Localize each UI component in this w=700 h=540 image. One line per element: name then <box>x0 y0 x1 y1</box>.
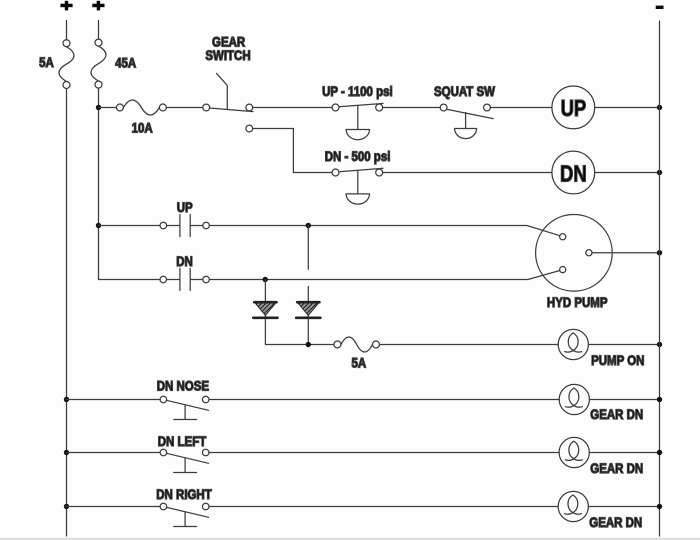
wire: pump-on row left <box>266 344 334 346</box>
relay contact K-UP <box>99 215 210 237</box>
indicator UP (circle) <box>552 86 595 129</box>
node: UP row / diode D2 branch <box>306 223 311 228</box>
node: left bus / DN NOSE row <box>64 397 69 402</box>
battery plus terminal 2 <box>92 1 104 11</box>
wire: UP relay row to pump <box>209 226 559 236</box>
wire: PS1 to squat switch <box>383 107 440 109</box>
wire: gear switch up contact to UP pressure switch <box>253 107 332 109</box>
svg-text:DN: DN <box>560 161 587 187</box>
node: left bus / DN RIGHT row <box>64 504 69 509</box>
wire: plus2 to fuse F2 <box>98 21 100 40</box>
label GEAR SWITCH <box>205 33 250 63</box>
wire: lamp2 to right bus <box>589 452 659 454</box>
svg-text:UP - 1100 psi: UP - 1100 psi <box>322 83 393 99</box>
indicator DN (circle) <box>552 151 595 194</box>
wire: S4 to gear-dn lamp 2 <box>209 452 559 454</box>
right bus <box>659 21 661 536</box>
svg-text:DN NOSE: DN NOSE <box>157 377 210 393</box>
lamp GEAR DN 1 <box>559 384 589 414</box>
svg-text:DN LEFT: DN LEFT <box>158 433 207 449</box>
lamp GEAR DN 3 <box>558 491 588 521</box>
wire: D2 branch upper <box>307 226 309 270</box>
wire: bus B from F2 down to DN relay row <box>98 88 100 279</box>
pressure switch PS2 DN-500psi <box>332 168 383 204</box>
wire: pump-on lamp to right bus <box>588 344 659 346</box>
svg-text:UP: UP <box>177 199 193 215</box>
svg-text:45A: 45A <box>115 54 136 70</box>
node: D2 / pump-on row <box>306 342 311 347</box>
bottom scan artifact line <box>0 538 700 540</box>
svg-text:SQUAT SW: SQUAT SW <box>434 83 496 99</box>
fuse F4 5A (horizontal) <box>334 337 380 352</box>
node: DN row / diode D1 branch <box>263 277 268 282</box>
node: right bus / row3 <box>657 504 662 509</box>
wire: lamp1 to right bus <box>589 399 659 401</box>
svg-text:SWITCH: SWITCH <box>205 47 250 63</box>
limit switch S5 DN RIGHT <box>66 503 209 526</box>
svg-text:GEAR DN: GEAR DN <box>590 460 643 476</box>
svg-text:DN RIGHT: DN RIGHT <box>156 486 212 502</box>
wire: UP lamp to right bus <box>595 107 660 109</box>
lamp PUMP ON <box>558 329 588 359</box>
svg-text:UP: UP <box>561 96 587 122</box>
wire: PS2 to DN lamp <box>383 172 552 174</box>
fuse F3 10A (horizontal) <box>116 100 166 115</box>
wire: plus1 to fuse F1 <box>66 21 68 40</box>
gear switch S1 <box>203 73 253 131</box>
svg-text:5A: 5A <box>351 354 366 370</box>
minus terminal (right bus) <box>656 6 664 9</box>
hydraulic pump motor M1 <box>536 215 613 292</box>
wire: gear switch dn contact branch <box>253 129 332 173</box>
node: right bus / row1 <box>657 397 662 402</box>
svg-text:5A: 5A <box>39 54 54 70</box>
svg-text:GEAR DN: GEAR DN <box>589 514 642 530</box>
svg-text:GEAR DN: GEAR DN <box>590 406 643 422</box>
svg-text:PUMP ON: PUMP ON <box>591 352 644 368</box>
wire: main row to fuse F3 <box>99 107 117 109</box>
svg-text:10A: 10A <box>132 119 153 135</box>
svg-text:DN: DN <box>176 253 193 269</box>
wire: F3 to gear switch <box>166 107 202 109</box>
svg-text:DN - 500 psi: DN - 500 psi <box>325 148 391 164</box>
pressure switch PS1 UP-1100psi <box>332 103 383 139</box>
wire: S3 to gear-dn lamp 1 <box>209 399 559 401</box>
wire: lamp3 to right bus <box>588 506 659 508</box>
node: right bus / pump row <box>657 250 662 255</box>
diode D2 <box>296 287 320 345</box>
node: left bus / DN LEFT row <box>64 450 69 455</box>
node: right bus / DN row <box>657 170 662 175</box>
wire: left bus (from F1 down to bottom) <box>66 89 68 537</box>
wire: DN relay row to pump <box>209 271 559 280</box>
wire: squat switch to UP lamp <box>490 107 552 109</box>
limit switch S3 DN NOSE <box>66 396 209 419</box>
squat switch S2 <box>440 104 493 139</box>
diode D1 <box>253 280 277 345</box>
node: right bus / UP row <box>657 105 662 110</box>
battery plus terminal 1 <box>60 1 72 11</box>
wire: DN lamp to right bus <box>595 172 660 174</box>
wire: F4 to pump-on lamp <box>380 344 559 346</box>
wire: pump to right bus <box>592 252 660 254</box>
svg-text:HYD PUMP: HYD PUMP <box>547 294 608 310</box>
lamp GEAR DN 2 <box>559 437 589 467</box>
node: bus B / UP relay row <box>96 223 101 228</box>
relay contact K-DN <box>99 268 210 290</box>
fuse F1 5A (vertical) <box>59 40 74 89</box>
node: right bus / row2 <box>657 450 662 455</box>
fuse F2 45A (vertical) <box>91 39 106 88</box>
node: junction F2 / main row <box>96 105 101 110</box>
limit switch S4 DN LEFT <box>66 449 209 472</box>
wire: S5 to gear-dn lamp 3 <box>209 506 558 508</box>
node: right bus / pump-on row <box>657 342 662 347</box>
